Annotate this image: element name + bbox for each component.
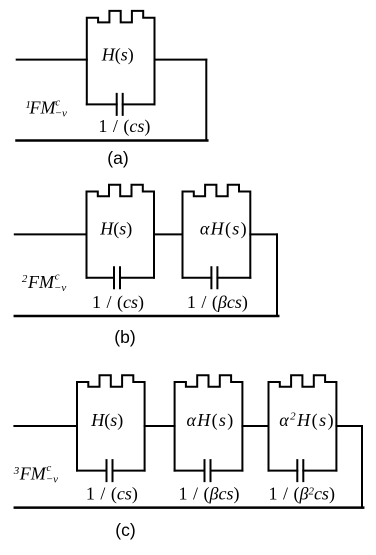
wire: right-side vertical drop (a) xyxy=(205,60,207,141)
svg-text:FM: FM xyxy=(19,463,47,483)
svg-text:1 / (cs): 1 / (cs) xyxy=(92,292,144,313)
wire: link between H(s) and aH(s) (b) xyxy=(154,233,183,235)
wire: output segment (a) xyxy=(155,59,207,61)
svg-text:(a): (a) xyxy=(107,148,128,168)
wire: output segment (c) xyxy=(336,425,362,427)
wire: link between H(s) and aH(s) (c) xyxy=(145,425,175,427)
wire: bottom edge segments of block aH(s) (c) xyxy=(175,470,243,472)
svg-text:α2H(s): α2H(s) xyxy=(279,410,335,431)
wire: bottom edge segments of block a2H(s) (c) xyxy=(269,470,337,472)
capacitor plates of block H(s) (c), value 1/(cs) xyxy=(107,460,113,481)
svg-text:c: c xyxy=(55,271,60,283)
wire: input rail (c) xyxy=(14,425,77,427)
wire: input rail (b) xyxy=(15,233,87,235)
svg-text:2: 2 xyxy=(22,273,28,285)
svg-text:H(s): H(s) xyxy=(99,218,132,239)
wire: bottom return rail (b) xyxy=(15,315,278,318)
svg-text:−v: −v xyxy=(46,473,58,485)
capacitor plates of block a2H(s) (c), value 1/(B2cs) xyxy=(297,460,303,481)
fractional-order block aH(s) (c): crenellated box xyxy=(175,375,243,470)
svg-text:H(s): H(s) xyxy=(101,45,134,66)
svg-text:(c): (c) xyxy=(115,520,135,540)
svg-text:FM: FM xyxy=(27,272,55,292)
svg-text:1 / (cs): 1 / (cs) xyxy=(86,484,138,505)
capacitor plates of block H(s) (b), value 1/(cs) xyxy=(114,267,120,288)
wire: output segment (b) xyxy=(250,233,277,235)
fractional-order block H(s) (a): crenellated box xyxy=(87,11,155,105)
fractional-order block a2H(s) (c): crenellated box xyxy=(269,375,337,470)
svg-text:−v: −v xyxy=(54,282,66,294)
fractional-order block aH(s) (b): crenellated box xyxy=(183,185,251,278)
wire: right-side vertical drop (c) xyxy=(361,426,363,508)
wire: bottom edge segments of block aH(s) (b) xyxy=(183,277,251,279)
fractional-order block H(s) (c): crenellated box xyxy=(77,375,145,470)
svg-text:1 / (β2cs): 1 / (β2cs) xyxy=(268,484,334,505)
capacitor plates of block aH(s) (c), value 1/(Bcs) xyxy=(205,460,211,481)
wire: bottom return rail (a) xyxy=(17,139,208,142)
svg-text:c: c xyxy=(46,462,51,474)
capacitor plates of block (a), value 1/(cs) xyxy=(117,94,123,115)
wire: input rail (a) xyxy=(17,59,87,61)
wire: link between aH(s) and a2H(s) (c) xyxy=(242,425,268,427)
svg-text:1 / (cs): 1 / (cs) xyxy=(98,116,150,137)
svg-text:1 / (βcs): 1 / (βcs) xyxy=(179,484,240,505)
svg-text:−v: −v xyxy=(55,108,67,120)
svg-text:1 / (βcs): 1 / (βcs) xyxy=(187,292,248,313)
fractional-order block H(s) (b): crenellated box xyxy=(87,185,155,278)
wire: bottom edge segments of block H(s) (c) xyxy=(77,470,145,472)
svg-text:αH(s): αH(s) xyxy=(200,219,248,240)
svg-text:H(s): H(s) xyxy=(90,410,123,431)
svg-text:FM: FM xyxy=(29,98,57,118)
wire: bottom edge segments of block H(s) (b) xyxy=(87,277,155,279)
wire: bottom edge segments of block (a) xyxy=(87,103,155,105)
svg-text:(b): (b) xyxy=(114,327,135,347)
wire: bottom return rail (c) xyxy=(15,506,363,509)
capacitor plates of block aH(s) (b), value 1/(Bcs) xyxy=(211,267,217,288)
svg-text:αH(s): αH(s) xyxy=(187,410,235,431)
svg-text:3: 3 xyxy=(13,465,20,477)
wire: right-side vertical drop (b) xyxy=(276,234,278,316)
